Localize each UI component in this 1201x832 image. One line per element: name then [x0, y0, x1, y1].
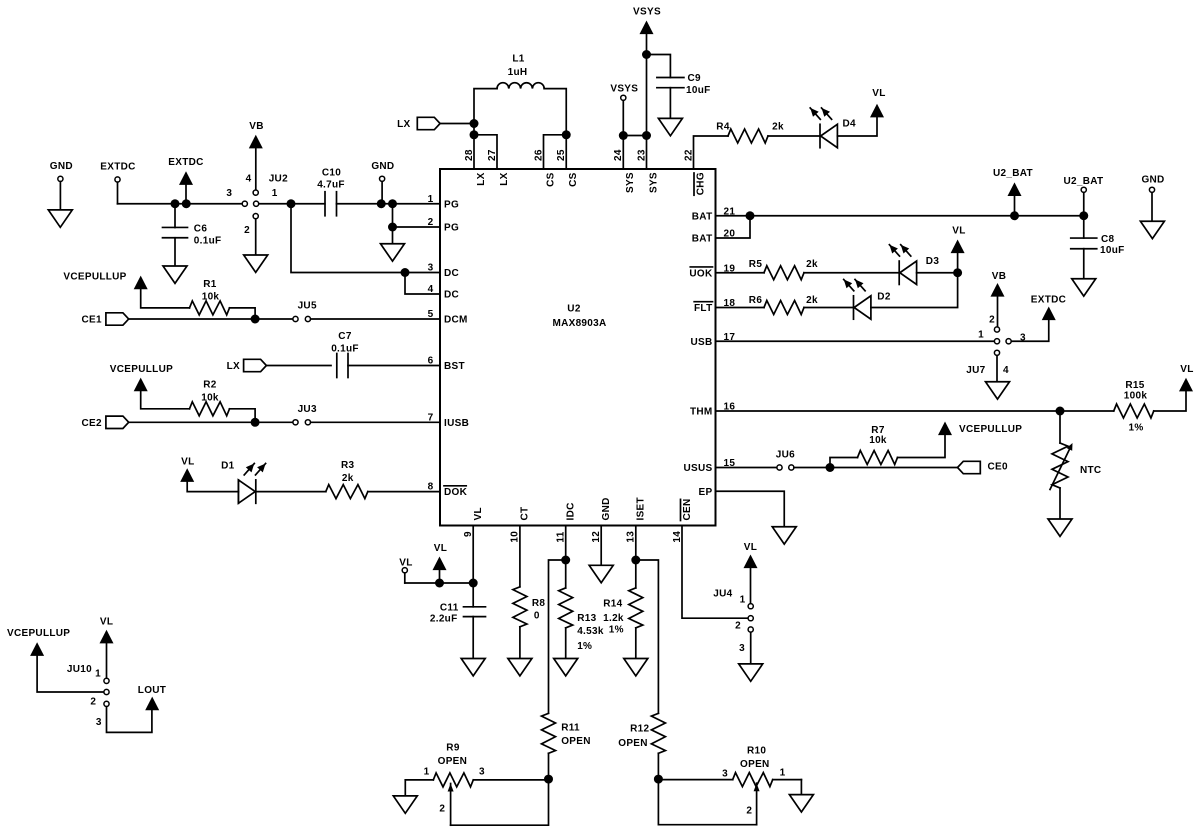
wire D1 to R3: [256, 491, 325, 493]
svg-text:VSYS: VSYS: [633, 7, 661, 18]
svg-text:23: 23: [636, 149, 647, 161]
svg-text:R5: R5: [749, 259, 763, 270]
GND port (top right): [1141, 175, 1164, 222]
jumper JU3: [293, 404, 317, 425]
wire to pin 2 PG and ground: [388, 204, 440, 244]
wire EP to ground: [716, 491, 785, 527]
svg-text:4.7uF: 4.7uF: [317, 180, 345, 191]
svg-text:EXTDC: EXTDC: [168, 157, 203, 168]
svg-text:PG: PG: [444, 223, 459, 234]
wire pin13 branch to R12: [636, 560, 659, 713]
svg-text:1: 1: [95, 669, 101, 680]
wire JU10 pin3 to LOUT: [107, 707, 152, 733]
GND port above pin 1: [371, 161, 394, 204]
svg-text:JU10: JU10: [67, 664, 92, 675]
svg-text:D3: D3: [926, 256, 940, 267]
pin 19 UOK (right): [689, 263, 735, 279]
svg-text:GND: GND: [1141, 175, 1164, 186]
svg-text:2k: 2k: [806, 259, 818, 270]
ground below R14: [624, 659, 648, 676]
wire pin 25 CS: [565, 135, 567, 169]
svg-text:GND: GND: [371, 161, 394, 172]
svg-text:14: 14: [672, 531, 683, 543]
svg-text:CT: CT: [520, 507, 531, 521]
svg-text:3: 3: [739, 643, 745, 654]
LED D2: [844, 279, 891, 319]
wire pin 15 USUS: [716, 467, 777, 469]
node junction pin 23: [642, 131, 651, 140]
node junctions on VL wire: [435, 579, 478, 588]
svg-text:D4: D4: [843, 119, 857, 130]
VL power arrow (JU10): [100, 617, 114, 679]
jumper JU4: [713, 588, 753, 654]
wire pin 18 FLT: [716, 307, 765, 309]
pin 2 PG (left): [428, 217, 459, 234]
EXTDC port circle: [100, 162, 135, 204]
wire VL circle to pin 9: [405, 582, 473, 584]
wire D3 to VL node: [917, 272, 958, 274]
svg-text:VL: VL: [434, 543, 447, 554]
svg-text:CS: CS: [568, 172, 579, 187]
svg-text:R14: R14: [603, 599, 622, 610]
svg-text:2k: 2k: [806, 295, 818, 306]
svg-text:JU7: JU7: [966, 365, 985, 376]
wire JU3 to pin 7 IUSB: [311, 421, 440, 423]
capacitor C7: [331, 331, 359, 378]
capacitor C10: [317, 168, 440, 216]
svg-text:CE0: CE0: [988, 462, 1008, 473]
LED D3: [889, 245, 939, 285]
pin 10 CT (bottom): [510, 507, 531, 543]
svg-text:LX: LX: [499, 172, 510, 185]
svg-text:CEN: CEN: [682, 498, 693, 520]
svg-text:NTC: NTC: [1080, 465, 1101, 476]
svg-text:VCEPULLUP: VCEPULLUP: [63, 272, 126, 283]
wire pin 27 LX elbow: [474, 135, 497, 169]
svg-text:GND: GND: [50, 161, 73, 172]
svg-text:GND: GND: [601, 497, 612, 520]
svg-text:VL: VL: [399, 558, 412, 569]
pin 28 LX (top): [464, 149, 487, 186]
capacitor C8: [1071, 216, 1125, 279]
svg-text:4: 4: [1003, 365, 1009, 376]
svg-text:10k: 10k: [202, 292, 220, 303]
wire pin 12 GND: [600, 526, 602, 566]
svg-text:0.1uF: 0.1uF: [194, 235, 222, 246]
svg-text:VCEPULLUP: VCEPULLUP: [959, 424, 1022, 435]
svg-text:VL: VL: [181, 456, 194, 467]
wire pin 11 IDC: [565, 526, 567, 588]
wire pin 24 SYS: [622, 136, 624, 170]
svg-text:ISET: ISET: [636, 497, 647, 520]
svg-text:10uF: 10uF: [686, 85, 711, 96]
svg-text:C10: C10: [322, 168, 341, 179]
VL port circle (pin9): [399, 558, 412, 584]
svg-text:1: 1: [740, 594, 746, 605]
resistor R2 10k: [190, 380, 256, 423]
pin 6 BST (left): [428, 356, 465, 373]
wire pin 13 ISET: [635, 526, 637, 588]
pin 27 LX (top): [487, 149, 510, 186]
ground below C6: [163, 266, 187, 283]
node junction R11/R9: [544, 775, 553, 784]
pin 5 DCM (left): [428, 309, 468, 326]
svg-text:SYS: SYS: [625, 172, 636, 193]
svg-text:1: 1: [978, 330, 984, 341]
wire CE2 to JU3: [129, 421, 293, 423]
U2_BAT power arrow: [993, 168, 1033, 216]
node junction USUS: [826, 463, 835, 472]
VL power arrow (D4): [870, 88, 886, 117]
svg-text:VL: VL: [872, 88, 885, 99]
svg-text:VB: VB: [992, 271, 1007, 282]
node junction CE1: [251, 315, 260, 324]
pin 11 IDC (bottom): [556, 502, 577, 542]
svg-text:R11: R11: [561, 722, 580, 733]
svg-text:DC: DC: [444, 290, 459, 301]
svg-text:DCM: DCM: [444, 315, 468, 326]
svg-text:THM: THM: [690, 407, 713, 418]
pin 15 USUS (right): [684, 458, 736, 474]
wire JU5 to pin 5 DCM: [311, 318, 440, 320]
node junction at pin 25: [562, 130, 571, 139]
wire D4 to VL: [837, 117, 877, 136]
svg-text:1%: 1%: [1128, 422, 1143, 433]
svg-text:VL: VL: [473, 507, 484, 520]
ground below C9: [658, 118, 682, 135]
svg-text:JU5: JU5: [298, 301, 317, 312]
svg-text:3: 3: [722, 769, 728, 780]
LX tag (top): [397, 117, 474, 130]
node junction pin 13: [631, 556, 640, 565]
svg-text:2k: 2k: [342, 473, 354, 484]
svg-text:CHG: CHG: [695, 172, 706, 195]
R10 wiper: [746, 783, 759, 825]
pin 8 DOK (left): [428, 482, 468, 499]
capacitor C11: [430, 583, 486, 659]
ground below R8: [508, 659, 532, 676]
svg-text:VCEPULLUP: VCEPULLUP: [7, 628, 70, 639]
svg-text:4.53k: 4.53k: [577, 626, 604, 637]
svg-text:26: 26: [533, 149, 544, 161]
VSYS port circle: [610, 84, 638, 136]
svg-text:R13: R13: [577, 613, 596, 624]
svg-text:1.2k: 1.2k: [603, 613, 624, 624]
ground below JU4: [739, 664, 763, 681]
svg-text:4: 4: [246, 174, 252, 185]
U2_BAT port circle: [1064, 176, 1104, 216]
VCEPULLUP power arrow (R7): [938, 422, 1022, 436]
inductor L1: [474, 54, 566, 135]
VL power arrow (D1): [180, 456, 238, 491]
resistor R6 2k: [749, 295, 854, 315]
svg-text:0.1uF: 0.1uF: [331, 344, 359, 355]
svg-text:1: 1: [780, 768, 786, 779]
wire LX to C7: [267, 365, 331, 367]
svg-text:USUS: USUS: [684, 463, 713, 474]
svg-text:BAT: BAT: [692, 211, 713, 222]
svg-text:CE2: CE2: [82, 418, 102, 429]
svg-text:VL: VL: [744, 542, 757, 553]
wire JU2 node to pin 3 DC: [291, 204, 440, 273]
svg-text:JU2: JU2: [269, 173, 288, 184]
jumper JU10: [67, 664, 109, 728]
svg-text:OPEN: OPEN: [740, 759, 770, 770]
pin 1 PG (left): [428, 194, 459, 211]
svg-text:LOUT: LOUT: [138, 685, 166, 696]
svg-text:R8: R8: [532, 598, 546, 609]
pin 25 CS (top): [556, 149, 579, 187]
wire pin 10 CT: [519, 526, 521, 587]
ground below C11: [461, 659, 485, 676]
svg-text:1%: 1%: [609, 624, 624, 635]
VSYS power arrow (top): [633, 7, 661, 35]
VB power arrow (JU7): [991, 271, 1007, 327]
node junction pin 11: [561, 556, 570, 565]
pin 9 VL (bottom): [463, 507, 484, 537]
pin 12 GND (bottom): [591, 497, 612, 542]
svg-text:DC: DC: [444, 268, 459, 279]
svg-text:PG: PG: [444, 199, 459, 210]
svg-text:USB: USB: [690, 337, 712, 348]
svg-text:U2_BAT: U2_BAT: [1064, 176, 1104, 187]
wire JU2 pin1 to C10: [259, 203, 325, 205]
ground below JU7: [986, 382, 1010, 399]
wire pin 28 LX: [473, 124, 475, 170]
VL power arrow (pin9): [433, 543, 448, 583]
CE2 tag: [82, 416, 129, 429]
svg-text:2: 2: [746, 806, 752, 817]
EXTDC power arrow: [168, 157, 203, 204]
pin 22 CHG (top): [683, 149, 706, 195]
LX tag (BST): [227, 359, 267, 372]
node junction at C8: [1079, 211, 1088, 220]
svg-text:UOK: UOK: [689, 268, 713, 279]
svg-text:3: 3: [479, 767, 485, 778]
svg-text:L1: L1: [512, 54, 524, 65]
svg-text:C7: C7: [338, 331, 352, 342]
R9 wiper: [439, 784, 453, 826]
wire JU4 pin3 to ground: [750, 633, 752, 664]
LED D1: [221, 461, 265, 504]
jumper JU7: [966, 315, 1026, 377]
resistor R14 1.2k 1%: [603, 588, 643, 659]
ground below NTC: [1048, 519, 1072, 536]
svg-text:C8: C8: [1101, 234, 1115, 245]
svg-text:IDC: IDC: [566, 502, 577, 520]
svg-text:VL: VL: [1180, 364, 1193, 375]
wire pin 26 CS elbow: [544, 135, 567, 169]
ground below pin 2 branch: [381, 244, 405, 261]
svg-text:MAX8903A: MAX8903A: [552, 318, 606, 329]
ground below pin 12: [589, 565, 613, 582]
svg-text:R6: R6: [749, 295, 763, 306]
CE1 tag: [82, 313, 129, 326]
resistor R5 2k: [749, 259, 899, 280]
VL power arrow (R15): [1179, 364, 1194, 391]
svg-text:CE1: CE1: [82, 315, 102, 326]
node junctions at LX: [470, 119, 479, 139]
svg-text:DOK: DOK: [444, 487, 468, 498]
pin 24 SYS (top): [613, 149, 636, 193]
svg-text:LX: LX: [397, 119, 410, 130]
ground below EP: [772, 527, 796, 544]
svg-text:2: 2: [989, 315, 995, 326]
resistor R13 4.53k 1%: [559, 588, 604, 659]
svg-text:100k: 100k: [1124, 390, 1148, 401]
VCEPULLUP power arrow (JU10): [7, 628, 104, 692]
IC U2 MAX8903A body: [440, 169, 716, 526]
node junction CE2: [251, 418, 260, 427]
pin EP EP (right): [699, 487, 713, 498]
svg-text:1: 1: [424, 767, 430, 778]
svg-text:10uF: 10uF: [1100, 245, 1125, 256]
jumper JU2: [226, 173, 288, 236]
svg-text:VB: VB: [249, 121, 264, 132]
svg-text:25: 25: [556, 149, 567, 161]
svg-text:LX: LX: [476, 172, 487, 185]
pin 21 BAT (right): [692, 206, 736, 222]
svg-text:10k: 10k: [869, 435, 887, 446]
svg-text:R10: R10: [747, 746, 766, 757]
svg-text:1uH: 1uH: [508, 67, 528, 78]
svg-text:C11: C11: [440, 602, 459, 613]
resistor R8 0: [513, 587, 546, 659]
svg-text:13: 13: [626, 531, 637, 543]
ground below GND port: [1140, 221, 1164, 238]
svg-text:OPEN: OPEN: [618, 738, 648, 749]
svg-text:VL: VL: [952, 226, 965, 237]
svg-text:JU6: JU6: [776, 450, 795, 461]
wire pin 9 VL: [472, 526, 474, 584]
node junction pin 24: [619, 131, 628, 140]
svg-text:1: 1: [272, 188, 278, 199]
wire pin 14 CEN to JU4: [682, 526, 748, 619]
LED D4: [810, 108, 856, 148]
wire JU7 pin 4 to ground: [996, 356, 998, 382]
svg-text:R4: R4: [716, 121, 730, 132]
capacitor C9: [647, 55, 711, 119]
wire C7 to pin 6 BST: [348, 365, 440, 367]
svg-text:EXTDC: EXTDC: [100, 162, 135, 173]
capacitor C6: [163, 204, 222, 266]
jumper JU6: [776, 450, 795, 471]
resistor R11 OPEN: [542, 713, 591, 779]
VL power arrow (D3): [951, 226, 966, 273]
svg-text:3: 3: [96, 717, 102, 728]
pin 13 ISET (bottom): [626, 497, 647, 543]
pin 4 DC (left): [428, 284, 459, 301]
wire JU6 to CEO: [794, 467, 958, 469]
node junction on pin 3 wire: [401, 268, 410, 277]
svg-text:2: 2: [735, 621, 741, 632]
svg-text:2: 2: [439, 804, 445, 815]
wire VSYS bus: [623, 35, 646, 170]
resistor R15 100k 1%: [1114, 380, 1186, 433]
ground below JU2: [244, 255, 268, 272]
wire pin 20 BAT: [716, 216, 751, 238]
node junction at C9 tap: [642, 50, 651, 59]
svg-text:D1: D1: [221, 461, 235, 472]
node junction VL (D3/D2): [953, 268, 962, 277]
svg-text:U2_BAT: U2_BAT: [993, 168, 1033, 179]
resistor R4 2k: [716, 121, 820, 143]
pin 14 CEN (bottom): [672, 498, 693, 542]
wire pin 17 USB: [716, 340, 995, 342]
svg-text:CS: CS: [545, 172, 556, 187]
resistor R7 10k: [830, 425, 945, 468]
svg-text:R2: R2: [203, 380, 217, 391]
VCEPULLUP power arrow (R1): [63, 272, 189, 308]
wire pin11 branch to R11: [549, 560, 566, 713]
svg-text:OPEN: OPEN: [561, 736, 591, 747]
wire R9 wiper loop: [451, 779, 549, 825]
svg-text:SYS: SYS: [648, 172, 659, 193]
EXTDC power arrow (JU7): [1011, 295, 1066, 342]
svg-text:2.2uF: 2.2uF: [430, 614, 458, 625]
svg-text:2: 2: [244, 225, 250, 236]
svg-text:2: 2: [90, 696, 96, 707]
potentiometer R10 OPEN: [658, 746, 801, 795]
pin 7 IUSB (left): [428, 412, 469, 429]
wire pin 16 THM: [716, 410, 1114, 412]
svg-text:0: 0: [534, 611, 540, 622]
ground at R9 pin1: [393, 796, 417, 813]
GND port (top left): [48, 161, 73, 227]
svg-text:JU4: JU4: [713, 588, 732, 599]
svg-text:12: 12: [591, 531, 602, 543]
VL power arrow (JU4): [744, 542, 758, 603]
svg-text:OPEN: OPEN: [438, 756, 468, 767]
svg-text:BST: BST: [444, 361, 465, 372]
svg-text:24: 24: [613, 149, 624, 161]
svg-text:VL: VL: [100, 617, 113, 628]
svg-text:R9: R9: [446, 743, 460, 754]
svg-text:R3: R3: [341, 460, 355, 471]
resistor R1 10k: [190, 279, 256, 319]
VB power arrow: [249, 121, 264, 190]
pin 20 BAT (right): [692, 229, 736, 245]
ground below C8: [1072, 279, 1096, 296]
svg-text:D2: D2: [877, 292, 891, 303]
node junctions on pin1 wire: [377, 199, 397, 208]
resistor R12 OPEN: [618, 713, 665, 779]
svg-text:22: 22: [683, 149, 694, 161]
svg-text:11: 11: [556, 531, 567, 542]
node junction R12/R10: [654, 775, 663, 784]
svg-text:VSYS: VSYS: [610, 84, 638, 95]
wire JU2 pin2 to ground: [255, 219, 257, 255]
potentiometer R9 OPEN: [405, 743, 548, 796]
node junction U2_BAT arrow: [1010, 211, 1019, 220]
node junction THM: [1056, 407, 1065, 416]
pin 23 SYS (top): [636, 149, 659, 193]
wire R10 wiper loop: [658, 779, 756, 825]
wire pin 22 CHG: [694, 136, 729, 169]
LOUT power arrow: [138, 685, 166, 710]
svg-text:C6: C6: [194, 224, 208, 235]
svg-text:VCEPULLUP: VCEPULLUP: [110, 364, 173, 375]
thermistor NTC: [1050, 411, 1101, 519]
svg-text:BAT: BAT: [692, 234, 713, 245]
svg-text:JU3: JU3: [298, 404, 317, 415]
svg-text:EP: EP: [699, 487, 713, 498]
svg-text:R1: R1: [203, 279, 217, 290]
VCEPULLUP power arrow (R2): [110, 364, 190, 409]
pin 16 THM (right): [690, 402, 735, 418]
svg-text:3: 3: [226, 188, 232, 199]
svg-text:1%: 1%: [577, 641, 592, 652]
